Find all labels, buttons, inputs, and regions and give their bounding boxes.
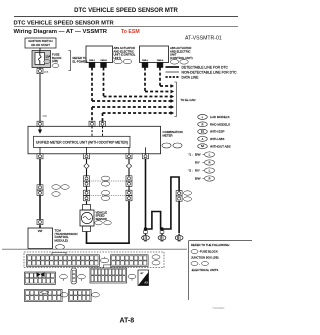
svg-text:CAN-L: CAN-L bbox=[89, 59, 96, 62]
svg-text:W/B: W/B bbox=[43, 116, 48, 118]
svg-text:JUNCTION BOX (J/B): JUNCTION BOX (J/B) bbox=[191, 256, 219, 260]
svg-text:UNIFIED METER CONTROL UNIT (WI: UNIFIED METER CONTROL UNIT (WITH ODO/TRI… bbox=[36, 141, 128, 145]
svg-text:R: R bbox=[202, 123, 204, 126]
svg-text:SA: SA bbox=[201, 145, 205, 148]
svg-text:B/W: B/W bbox=[195, 153, 201, 157]
svg-text:B/W: B/W bbox=[195, 177, 201, 181]
svg-text:DTC VEHICLE SPEED SENSOR MTR: DTC VEHICLE SPEED SENSOR MTR bbox=[74, 8, 178, 14]
svg-text:LHD MODELS: LHD MODELS bbox=[210, 115, 230, 119]
svg-text:DETECTABLE LINE FOR DTC: DETECTABLE LINE FOR DTC bbox=[182, 65, 229, 69]
svg-text:A3: A3 bbox=[144, 281, 148, 285]
svg-text:R: R bbox=[209, 178, 211, 181]
svg-text:NON-DETECTABLE LINE FOR DTC: NON-DETECTABLE LINE FOR DTC bbox=[182, 70, 238, 74]
svg-text:VSP: VSP bbox=[38, 231, 43, 233]
svg-text:YWA0382D: YWA0382D bbox=[212, 307, 225, 310]
svg-text:R/Y: R/Y bbox=[195, 169, 200, 173]
svg-text:WITH ABS: WITH ABS bbox=[210, 137, 224, 141]
svg-text:10A: 10A bbox=[45, 55, 50, 59]
svg-text:ON OR START: ON OR START bbox=[31, 43, 50, 47]
svg-text:ES: ES bbox=[201, 131, 205, 134]
svg-text:REFER TO THE FOLLOWING:: REFER TO THE FOLLOWING: bbox=[191, 243, 230, 247]
svg-text:-ELECTRICAL UNITS: -ELECTRICAL UNITS bbox=[191, 268, 218, 272]
svg-text:MODULE): MODULE) bbox=[55, 239, 68, 243]
svg-text:*1 :: *1 : bbox=[189, 153, 193, 157]
svg-text:CAN-H: CAN-H bbox=[100, 59, 107, 62]
svg-text:WITH ESP: WITH ESP bbox=[210, 130, 225, 134]
svg-text:RHD MODELS: RHD MODELS bbox=[210, 122, 230, 126]
svg-text:R: R bbox=[209, 162, 211, 165]
svg-text:Wiring Diagram — AT — VSSMTR: Wiring Diagram — AT — VSSMTR bbox=[14, 29, 108, 35]
svg-text:To ESM: To ESM bbox=[121, 29, 140, 35]
svg-text:DTC VEHICLE SPEED SENSOR MTR: DTC VEHICLE SPEED SENSOR MTR bbox=[14, 21, 115, 27]
svg-text:AT-VSSMTR-01: AT-VSSMTR-01 bbox=[185, 36, 222, 42]
svg-text:METER: METER bbox=[163, 134, 173, 138]
svg-text:(J/B): (J/B) bbox=[52, 59, 58, 63]
svg-text:-FUSE BLOCK-: -FUSE BLOCK- bbox=[199, 250, 219, 254]
svg-text:TO EL-CAN: TO EL-CAN bbox=[181, 98, 196, 102]
svg-text:CAN-L: CAN-L bbox=[142, 59, 149, 62]
svg-text:*2 :: *2 : bbox=[189, 169, 193, 173]
svg-text:SENSOR: SENSOR bbox=[96, 217, 107, 221]
svg-text:DATA LINE: DATA LINE bbox=[182, 75, 200, 79]
svg-text:CAN-H: CAN-H bbox=[157, 59, 164, 62]
svg-text:WITHOUT ABS: WITHOUT ABS bbox=[210, 144, 231, 148]
svg-text:AT-8: AT-8 bbox=[120, 318, 135, 325]
svg-text:R/Y: R/Y bbox=[195, 161, 200, 165]
svg-text:W/B: W/B bbox=[44, 72, 49, 74]
